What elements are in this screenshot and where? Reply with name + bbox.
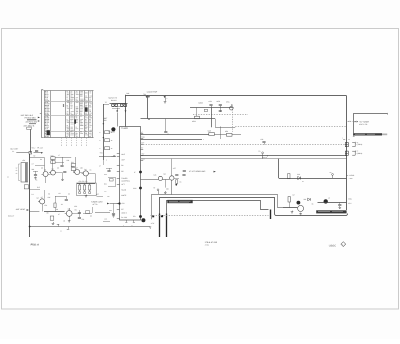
svg-text:27B-6 47-250: 27B-6 47-250 <box>205 241 218 244</box>
svg-text:DIAL LT: DIAL LT <box>8 215 15 218</box>
svg-text:TP-1 47: TP-1 47 <box>37 147 43 150</box>
svg-text:ANT 250-2 B: ANT 250-2 B <box>24 124 35 127</box>
svg-text:+5V TUNER: +5V TUNER <box>359 120 370 123</box>
svg-text:TUNER: TUNER <box>121 127 128 130</box>
svg-text:MATCH 75: MATCH 75 <box>109 97 117 100</box>
svg-text:ANT LIGHT: ANT LIGHT <box>16 208 26 211</box>
svg-text:VHF: VHF <box>121 158 124 161</box>
svg-text:B1: B1 <box>121 164 123 167</box>
svg-text:AFT B: AFT B <box>93 203 99 206</box>
svg-text:AGC 1-2 B: AGC 1-2 B <box>359 123 368 126</box>
svg-text:AM-FM 2-250: AM-FM 2-250 <box>26 121 37 124</box>
svg-text:MUTE: MUTE <box>121 194 127 197</box>
svg-text:47 1ST VIDEO AMP: 47 1ST VIDEO AMP <box>189 170 206 173</box>
svg-text:TUNER: TUNER <box>121 177 128 180</box>
svg-text:B+ 14V: B+ 14V <box>121 216 128 219</box>
svg-text:UHF: UHF <box>121 153 125 156</box>
svg-text:TUNER CONT: TUNER CONT <box>91 201 103 204</box>
svg-text:300: 300 <box>104 119 107 122</box>
svg-text:PHONO 98-6: PHONO 98-6 <box>25 117 36 120</box>
svg-text:CONTROL: CONTROL <box>121 180 129 183</box>
svg-text:SCAN: SCAN <box>121 189 127 192</box>
svg-text:USOC: USOC <box>329 244 336 247</box>
svg-text:GND 2: GND 2 <box>121 211 126 214</box>
svg-text:COAX TRAP: COAX TRAP <box>147 91 158 94</box>
svg-text:P541-A: P541-A <box>31 244 40 247</box>
svg-text:B2: B2 <box>121 170 123 173</box>
svg-text:BLK WHT: BLK WHT <box>11 147 20 150</box>
